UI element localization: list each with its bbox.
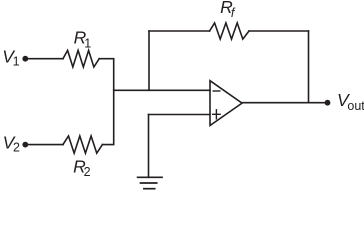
resistor R2 [63,136,103,153]
wire Rf to right vertical [249,30,309,32]
node dot Vout [325,100,331,106]
svg-text:f: f [231,6,236,20]
svg-text:out: out [347,99,364,113]
node dot V2 [22,142,28,148]
wire top left to Rf [149,30,210,32]
op-amp inverting input minus sign [213,90,220,92]
node dot V1 [22,56,28,62]
op-amp U1 [210,81,242,126]
resistor Rf [210,23,250,39]
svg-text:2: 2 [13,141,20,155]
svg-text:1: 1 [84,36,91,50]
resistor R1 [63,50,99,67]
ground [138,177,162,188]
svg-text:2: 2 [84,165,91,179]
wire R1 to summing junction vertical [99,59,114,145]
op-amp non-inverting input plus sign [213,110,220,119]
svg-text:1: 1 [13,55,20,69]
wire V2 to R2 [25,144,63,146]
wire feedback left vertical [148,31,150,90]
wire V1 to R1 [25,58,63,60]
wire feedback right vertical [308,31,310,103]
wire op-amp output to Vout [242,102,328,104]
wire to ground [148,115,150,178]
wire summing junction to inverting input [114,89,210,91]
wire non-inverting input [149,114,211,116]
